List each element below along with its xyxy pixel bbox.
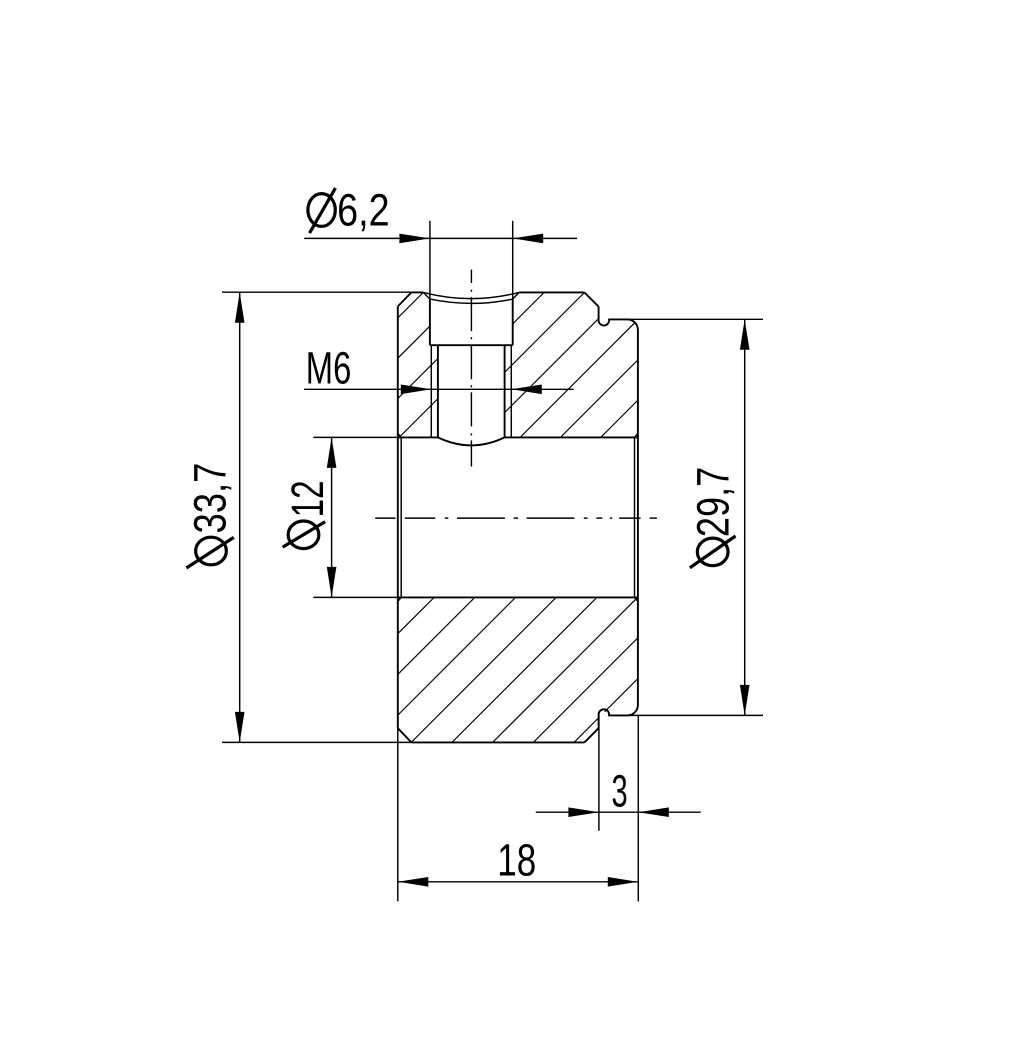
part outline (section through bushing) xyxy=(398,292,638,742)
counterbore Ø6.2 walls and bottom xyxy=(430,299,513,345)
svg-text:M6: M6 xyxy=(306,343,351,393)
svg-text:12: 12 xyxy=(283,480,333,517)
dimension 18 overall width xyxy=(398,727,639,901)
M6 thread major diameter lines xyxy=(431,345,511,437)
section hatching xyxy=(266,288,791,748)
svg-text:6,2: 6,2 xyxy=(337,184,389,235)
bore Ø12 top and bottom edges xyxy=(398,437,638,597)
dimension Ø33,7 outer diameter xyxy=(185,292,412,742)
svg-text:29,7: 29,7 xyxy=(687,467,738,537)
M6 tap hole core lines and drill bottom xyxy=(438,345,505,445)
dimension Ø29,7 step diameter xyxy=(622,319,763,715)
vertical centerline of tapped hole xyxy=(470,270,472,467)
dimension 3 step width xyxy=(536,713,701,901)
dimension M6 thread xyxy=(304,343,573,394)
dimension Ø6,2 counterbore xyxy=(304,184,577,299)
svg-text:3: 3 xyxy=(612,766,628,817)
svg-text:33,7: 33,7 xyxy=(185,463,236,534)
svg-text:18: 18 xyxy=(497,834,536,886)
horizontal centerline of bore xyxy=(375,517,657,519)
spherical dish edges at top face xyxy=(423,292,519,303)
dimension Ø12 bore xyxy=(283,437,398,597)
bore chamfer edges xyxy=(398,433,638,601)
